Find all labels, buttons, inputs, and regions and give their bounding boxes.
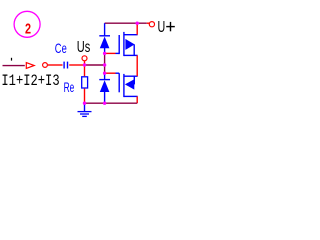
svg-text:Re: Re [64,81,75,95]
svg-text:Ce: Ce [55,40,67,56]
svg-text:I1+I2+I3: I1+I2+I3 [1,73,59,91]
svg-text:U: U [158,18,166,36]
svg-text:2: 2 [25,20,31,37]
svg-text:Us: Us [77,38,91,55]
